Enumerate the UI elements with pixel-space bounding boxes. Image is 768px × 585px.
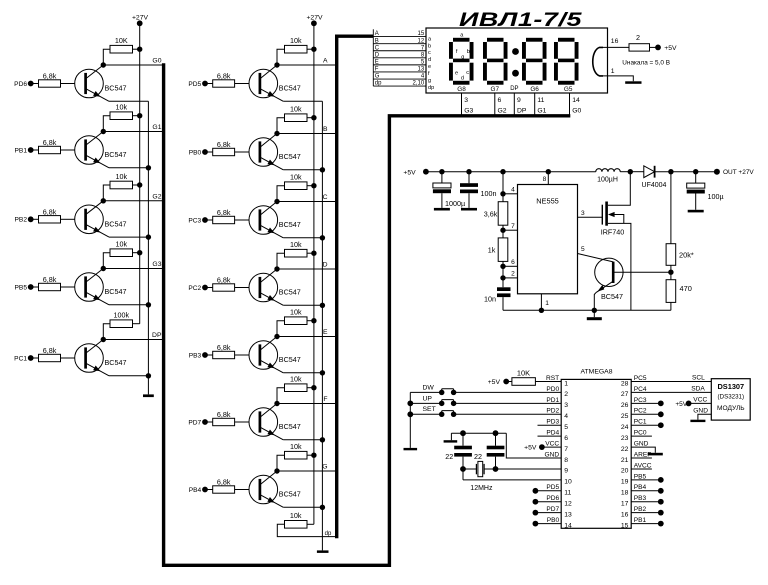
junction collector node B (274, 131, 279, 136)
junction emitter rail at G1 row (146, 165, 151, 170)
junction cap2 top (493, 430, 499, 436)
svg-text:PD7: PD7 (546, 506, 559, 513)
svg-text:6,8k: 6,8k (43, 275, 57, 284)
svg-text:GND: GND (545, 451, 560, 458)
node input port PD6 (14, 81, 33, 88)
wire display grid pin 9 (DP) (513, 93, 515, 116)
junction rail / timing divider (500, 169, 505, 174)
transistor BC547 driver for F (249, 404, 301, 440)
svg-text:b: b (467, 49, 470, 55)
svg-text:22: 22 (621, 446, 629, 453)
ground (1000µ cap) (434, 208, 450, 211)
svg-text:13: 13 (564, 511, 572, 518)
svg-text:6,8k: 6,8k (217, 343, 231, 352)
resistor 10k pull-up for segment/grid C (277, 173, 314, 202)
capacitor 22p (XTAL1) (445, 433, 472, 469)
svg-text:A: A (375, 31, 379, 37)
junction collector node D (274, 266, 279, 271)
resistor 6,8k base of G0 driver (31, 72, 75, 88)
wire emitter of C driver to cathode rail (283, 237, 322, 239)
node input port PC3 (188, 217, 208, 224)
svg-text:BC547: BC547 (105, 287, 127, 296)
svg-text:b: b (428, 43, 431, 49)
svg-text:6: 6 (511, 259, 515, 266)
junction emitter rail at E row (320, 370, 325, 375)
svg-text:c: c (428, 50, 431, 56)
svg-text:2,10: 2,10 (413, 81, 425, 87)
display internal segment letters a-dp (428, 36, 434, 91)
svg-text:PB4: PB4 (189, 487, 202, 494)
wire AREF stub (631, 457, 652, 459)
wire display pin 16 to filament resistor (603, 46, 629, 48)
junction +27V rail / 10k (311, 251, 316, 256)
power +5V filament terminal (655, 45, 677, 53)
power +5V for RTC VCC (675, 396, 711, 408)
wire GND pin 8 to cap ground bus (506, 433, 561, 458)
switch push-button SET (410, 406, 561, 417)
svg-text:PC2: PC2 (188, 285, 201, 292)
resistor 10k pull-up for segment dp (277, 511, 336, 537)
svg-text:PB2: PB2 (634, 506, 647, 513)
svg-text:+5V: +5V (403, 169, 416, 176)
svg-text:G: G (322, 464, 327, 471)
svg-text:7: 7 (564, 446, 568, 453)
svg-text:G: G (375, 74, 380, 80)
resistor 6,8k base of E driver (205, 343, 249, 359)
svg-text:BC547: BC547 (105, 220, 127, 229)
junction rail / 100µ cap (693, 169, 698, 174)
svg-text:DP: DP (152, 332, 162, 339)
wire thick segment bus (A-G,dp to display) (337, 36, 374, 538)
svg-text:G3: G3 (152, 261, 161, 268)
wire emitter of A driver to cathode rail (283, 100, 322, 102)
svg-text:PD5: PD5 (546, 484, 559, 491)
resistor 470 feedback lower (666, 280, 692, 303)
svg-text:D: D (323, 262, 328, 269)
svg-text:G6: G6 (530, 86, 539, 93)
svg-text:1: 1 (545, 300, 549, 307)
inductor 100µH (596, 169, 620, 184)
junction +27V rail / 10k (137, 250, 142, 255)
svg-text:100k: 100k (113, 311, 129, 320)
svg-text:VCC: VCC (693, 396, 707, 403)
svg-text:SDA: SDA (691, 385, 705, 392)
svg-text:20k*: 20k* (679, 250, 694, 259)
wire SCL (PC5 to DS1307) (631, 375, 711, 382)
svg-text:10k: 10k (290, 36, 302, 45)
wire emitter of DP driver to cathode rail (109, 375, 148, 377)
svg-text:B: B (375, 38, 379, 44)
svg-text:OUT +27V: OUT +27V (723, 169, 754, 176)
svg-text:6,8k: 6,8k (43, 72, 57, 81)
IC DS1307 (DS3231) RTC module (711, 379, 750, 420)
svg-text:10K: 10K (517, 368, 530, 377)
wire thick grid bus (G0-G3,DP to display) (164, 63, 571, 565)
svg-text:BC547: BC547 (279, 84, 301, 93)
svg-text:PD3: PD3 (546, 419, 559, 426)
power +27V terminal (left column) (132, 15, 149, 27)
junction emitter rail at C row (320, 235, 325, 240)
svg-text:D: D (375, 52, 380, 58)
junction +27V rail / 10k (311, 453, 316, 458)
resistor 10k pull-up for segment/grid E (277, 308, 314, 337)
svg-text:10: 10 (564, 479, 572, 486)
svg-text:F: F (375, 67, 379, 73)
node port PD5 (pin 11) (533, 488, 562, 494)
display digit 2 (hours units) (483, 38, 508, 85)
junction emitter rail at F row (320, 437, 325, 442)
wire +27V anode rail (left column) (139, 23, 141, 323)
svg-text:Uнакала = 5,0 В: Uнакала = 5,0 В (622, 59, 670, 66)
svg-text:3: 3 (464, 97, 468, 104)
svg-text:BC547: BC547 (279, 422, 301, 431)
svg-text:6,8k: 6,8k (43, 207, 57, 216)
ground (buttons) (404, 448, 418, 450)
display filament connector arc (593, 47, 603, 76)
wire NE555 pin 3 to gate (578, 210, 603, 217)
wire net A to bus (277, 64, 337, 66)
svg-text:16: 16 (621, 511, 629, 518)
wire 470 to ground rail (670, 302, 672, 310)
capacitor 1000µ input electrolytic (433, 172, 465, 209)
junction +27V rail / 10k (311, 47, 316, 52)
node port PB3 (pin 17) (631, 499, 663, 505)
svg-text:6,8k: 6,8k (217, 276, 231, 285)
resistor 10k pull-up for segment/grid G3 (103, 240, 139, 269)
capacitor 100µ output electrolytic (687, 172, 724, 210)
svg-text:10k: 10k (115, 240, 127, 249)
wire PD4 stub (538, 435, 562, 437)
ground (left column cathode rail) (143, 394, 154, 397)
svg-text:IRF740: IRF740 (601, 228, 625, 237)
wire rail to pin4 and 3,6k (502, 172, 504, 202)
junction collector node G (274, 468, 279, 473)
power +5V for RST pull-up (488, 379, 509, 387)
node port PB0 (pin 14) (533, 521, 562, 527)
svg-text:10k: 10k (115, 103, 127, 112)
svg-text:26: 26 (621, 402, 629, 409)
svg-text:(DS3231): (DS3231) (718, 394, 744, 401)
wire display grid pin 6 (G2) (494, 93, 496, 116)
resistor 6,8k base of A driver (205, 72, 249, 88)
svg-text:PD0: PD0 (546, 386, 559, 393)
resistor 6,8k base of D driver (205, 276, 249, 292)
svg-text:PB4: PB4 (634, 484, 647, 491)
resistor 6,8k base of B driver (205, 140, 249, 156)
svg-text:PC3: PC3 (634, 397, 647, 404)
wire NE555 pin 2 (503, 271, 518, 278)
wire net F to bus (277, 403, 337, 405)
resistor 3,6k (484, 202, 508, 226)
transistor BC547 driver for DP (75, 340, 127, 376)
resistor 10k pull-up for segment/grid A (277, 36, 314, 65)
svg-text:BC547: BC547 (601, 292, 623, 301)
svg-text:22: 22 (445, 452, 453, 461)
transistor BC547 driver for G (249, 471, 301, 507)
svg-text:1: 1 (564, 380, 568, 387)
svg-text:G1: G1 (152, 124, 161, 131)
svg-text:A: A (323, 58, 328, 65)
wire display grid pin 14 (G0) (569, 93, 571, 116)
svg-text:100n: 100n (481, 189, 497, 198)
svg-text:12MHz: 12MHz (470, 485, 493, 492)
wire emitter of F driver to cathode rail (283, 439, 322, 441)
resistor 10k pull-up for segment/grid B (277, 105, 314, 134)
svg-text:SCL: SCL (692, 375, 705, 382)
svg-text:G2: G2 (498, 107, 507, 114)
svg-text:PC4: PC4 (634, 386, 647, 393)
wire display grid pin 3 (G3) (461, 93, 463, 116)
svg-text:3: 3 (564, 402, 568, 409)
junction collector node G3 (101, 266, 106, 271)
node input port PB3 (189, 352, 208, 359)
svg-text:BC547: BC547 (279, 288, 301, 297)
svg-text:6,8k: 6,8k (217, 478, 231, 487)
node input port PC1 (14, 355, 33, 362)
svg-text:UF4004: UF4004 (642, 182, 667, 189)
svg-text:g: g (461, 54, 464, 60)
svg-text:GND: GND (634, 440, 649, 447)
wire net G2 to bus (103, 200, 164, 202)
svg-text:10k: 10k (290, 308, 302, 317)
svg-text:17: 17 (621, 501, 629, 508)
display digit 3 (minutes tens) (522, 38, 547, 85)
IC ATMEGA8 body (561, 369, 631, 529)
wire 10n to ground rail (502, 297, 504, 310)
wire net D to bus (277, 268, 337, 270)
wire RTC GND (693, 407, 711, 419)
node port PC1 (pin 24) (631, 422, 663, 428)
svg-text:+5V: +5V (664, 45, 677, 52)
svg-text:AVCC: AVCC (634, 462, 652, 469)
svg-text:PD1: PD1 (546, 397, 559, 404)
node input port PB0 (189, 149, 208, 156)
transistor BC547 driver for B (249, 134, 301, 170)
svg-text:6: 6 (498, 97, 502, 104)
svg-text:E: E (323, 329, 328, 336)
svg-text:BC547: BC547 (279, 490, 301, 499)
node port PB5 (pin 19) (631, 477, 663, 483)
svg-text:100µH: 100µH (597, 177, 618, 184)
resistor 6,8k base of G driver (205, 478, 249, 494)
svg-text:PC3: PC3 (188, 217, 201, 224)
svg-text:16: 16 (611, 38, 619, 45)
svg-text:2: 2 (564, 391, 568, 398)
wire button common rail (409, 392, 411, 447)
svg-text:6,8k: 6,8k (43, 346, 57, 355)
svg-text:PD4: PD4 (546, 430, 559, 437)
svg-text:2: 2 (636, 33, 640, 42)
junction feedback divider tap (668, 270, 673, 275)
svg-text:10n: 10n (484, 295, 496, 304)
junction +27V rail / 10k (311, 183, 316, 188)
transistor BC547 feedback (594, 258, 671, 310)
transistor BC547 driver for G2 (75, 201, 127, 237)
svg-text:G7: G7 (491, 86, 500, 93)
crystal 12MHz (470, 461, 493, 491)
wire display pin 1 to ground (603, 76, 633, 81)
svg-text:18: 18 (621, 490, 629, 497)
svg-text:BC547: BC547 (279, 355, 301, 364)
junction emitter rail at DP row (146, 373, 151, 378)
junction pin 7 tap (500, 228, 505, 233)
svg-text:3,6k: 3,6k (484, 210, 498, 219)
svg-text:BC547: BC547 (279, 152, 301, 161)
wire NE555 pin 1 to ground rail (541, 294, 549, 311)
svg-text:PB1: PB1 (15, 147, 28, 154)
svg-text:C: C (323, 194, 328, 201)
ground (100µ cap) (688, 210, 704, 213)
svg-text:1k: 1k (488, 246, 496, 255)
svg-text:9: 9 (517, 97, 521, 104)
wire boost ground rail (503, 309, 671, 311)
junction pin 6 tap (500, 264, 505, 269)
node input port PD7 (188, 419, 208, 426)
junction XTAL1 node (460, 466, 466, 472)
svg-text:470: 470 (680, 284, 692, 293)
svg-text:E: E (375, 59, 379, 65)
wire 1k to 10n node (502, 261, 504, 287)
junction +27V rail / 10k (311, 385, 316, 390)
junction +27V rail / 10k (137, 182, 142, 187)
junction XTAL2 node (493, 466, 499, 472)
svg-text:DS1307: DS1307 (717, 382, 744, 391)
svg-text:14: 14 (564, 522, 572, 529)
svg-text:15: 15 (621, 522, 629, 529)
junction rail / 100n cap (466, 169, 471, 174)
display digit 1 (hours tens) with segment letters (449, 33, 474, 85)
svg-text:10k: 10k (115, 172, 127, 181)
svg-text:c: c (466, 70, 469, 76)
svg-text:e: e (428, 64, 431, 70)
svg-text:ИВЛ1-7/5: ИВЛ1-7/5 (459, 9, 582, 31)
svg-text:25: 25 (621, 413, 629, 420)
node port PD6 (pin 12) (533, 499, 562, 505)
svg-text:3: 3 (581, 210, 585, 217)
junction rail / 20k divider (668, 169, 673, 174)
wire net B to bus (277, 133, 337, 135)
wire emitter of B driver to cathode rail (283, 169, 322, 171)
resistor 6,8k base of G3 driver (31, 275, 75, 291)
svg-text:PD6: PD6 (14, 81, 27, 88)
resistor 6,8k base of G1 driver (31, 138, 75, 154)
wire net E to bus (277, 336, 337, 338)
svg-text:100µ: 100µ (708, 192, 724, 201)
svg-text:24: 24 (621, 424, 629, 431)
svg-text:12: 12 (564, 501, 572, 508)
svg-text:19: 19 (621, 479, 629, 486)
wire output node to 20k (670, 172, 672, 244)
junction rail / MOSFET drain (628, 169, 633, 174)
ground (display filament) (625, 81, 641, 84)
svg-text:10K: 10K (115, 36, 128, 45)
svg-text:PD2: PD2 (546, 408, 559, 415)
svg-text:g: g (428, 78, 431, 84)
wire rail inductor to drain node (620, 171, 630, 173)
node input port PC2 (188, 285, 208, 292)
op-amp/timer NE555 (518, 185, 578, 294)
node port PB4 (pin 18) (631, 488, 663, 494)
switch push-button UP (410, 395, 561, 406)
junction emitter rail at G row (320, 505, 325, 510)
svg-text:d: d (428, 57, 431, 63)
transistor BC547 driver for G0 (75, 65, 127, 101)
wire NE555 pin 8 to rail (543, 172, 549, 185)
resistor 20k* feedback upper (666, 244, 694, 266)
svg-text:PB1: PB1 (634, 517, 647, 524)
resistor 10k pull-up for segment/grid G (277, 442, 314, 471)
svg-text:C: C (375, 45, 380, 51)
wire NE555 pin 7 (503, 223, 518, 230)
wire NE555 pin 6 (503, 259, 518, 266)
svg-text:d: d (461, 76, 464, 82)
junction cap1 top (460, 430, 466, 436)
svg-text:G2: G2 (152, 193, 161, 200)
svg-text:2: 2 (511, 271, 515, 278)
svg-text:27: 27 (621, 391, 629, 398)
svg-text:BC547: BC547 (105, 358, 127, 367)
junction collector node G1 (101, 129, 106, 134)
wire 3,6k to 1k node (502, 225, 504, 238)
svg-text:G5: G5 (564, 86, 573, 93)
wire emitter of E driver to cathode rail (283, 372, 322, 374)
junction +27V rail / 10k (137, 113, 142, 118)
wire AVCC stub (631, 468, 652, 470)
svg-text:B: B (323, 126, 328, 133)
svg-text:UP: UP (423, 395, 433, 402)
wire emitter of G1 driver to cathode rail (109, 167, 148, 169)
capacitor 22p (XTAL2) (474, 433, 504, 469)
node input port PB1 (15, 147, 34, 154)
wire emitter of G2 driver to cathode rail (109, 236, 148, 238)
svg-text:8: 8 (564, 457, 568, 464)
junction collector node F (274, 401, 279, 406)
node input port PB5 (15, 284, 34, 291)
svg-text:23: 23 (621, 435, 629, 442)
ATMEGA8 right pin names (634, 375, 652, 524)
svg-text:9: 9 (564, 468, 568, 475)
junction ground rail / BC547 emitter (592, 308, 597, 313)
svg-text:PB2: PB2 (15, 217, 28, 224)
wire PC0 stub (631, 435, 652, 437)
junction emitter rail at G2 row (146, 234, 151, 239)
junction collector node DP (101, 337, 106, 342)
resistor 2 (filament dropper) (629, 33, 658, 51)
junction +27V rail / 10k (311, 318, 316, 323)
svg-text:PC2: PC2 (634, 408, 647, 415)
node OUT +27V terminal (714, 169, 755, 177)
svg-text:ATMEGA8: ATMEGA8 (581, 369, 613, 376)
svg-text:G8: G8 (457, 86, 466, 93)
junction emitter rail at G3 row (146, 302, 151, 307)
junction button rail SET (407, 411, 413, 417)
svg-text:11: 11 (564, 490, 571, 497)
svg-text:+5V: +5V (675, 401, 687, 408)
svg-text:6,8k: 6,8k (217, 140, 231, 149)
wire XTAL2 pin 10 (463, 469, 561, 480)
node input port PB4 (189, 487, 208, 494)
resistor 10k pull-up for segment/grid G1 (103, 103, 139, 132)
transistor BC547 driver for A (249, 65, 301, 101)
node input port PD5 (188, 81, 208, 88)
junction collector node E (274, 334, 279, 339)
resistor 10k pull-up for segment/grid D (277, 240, 314, 269)
node port PC3 (pin 26) (631, 400, 663, 406)
transistor BC547 driver for C (249, 202, 301, 238)
transistor BC547 driver for E (249, 337, 301, 373)
junction emitter rail at B row (320, 167, 325, 172)
junction rail / pin 8 (546, 169, 551, 174)
